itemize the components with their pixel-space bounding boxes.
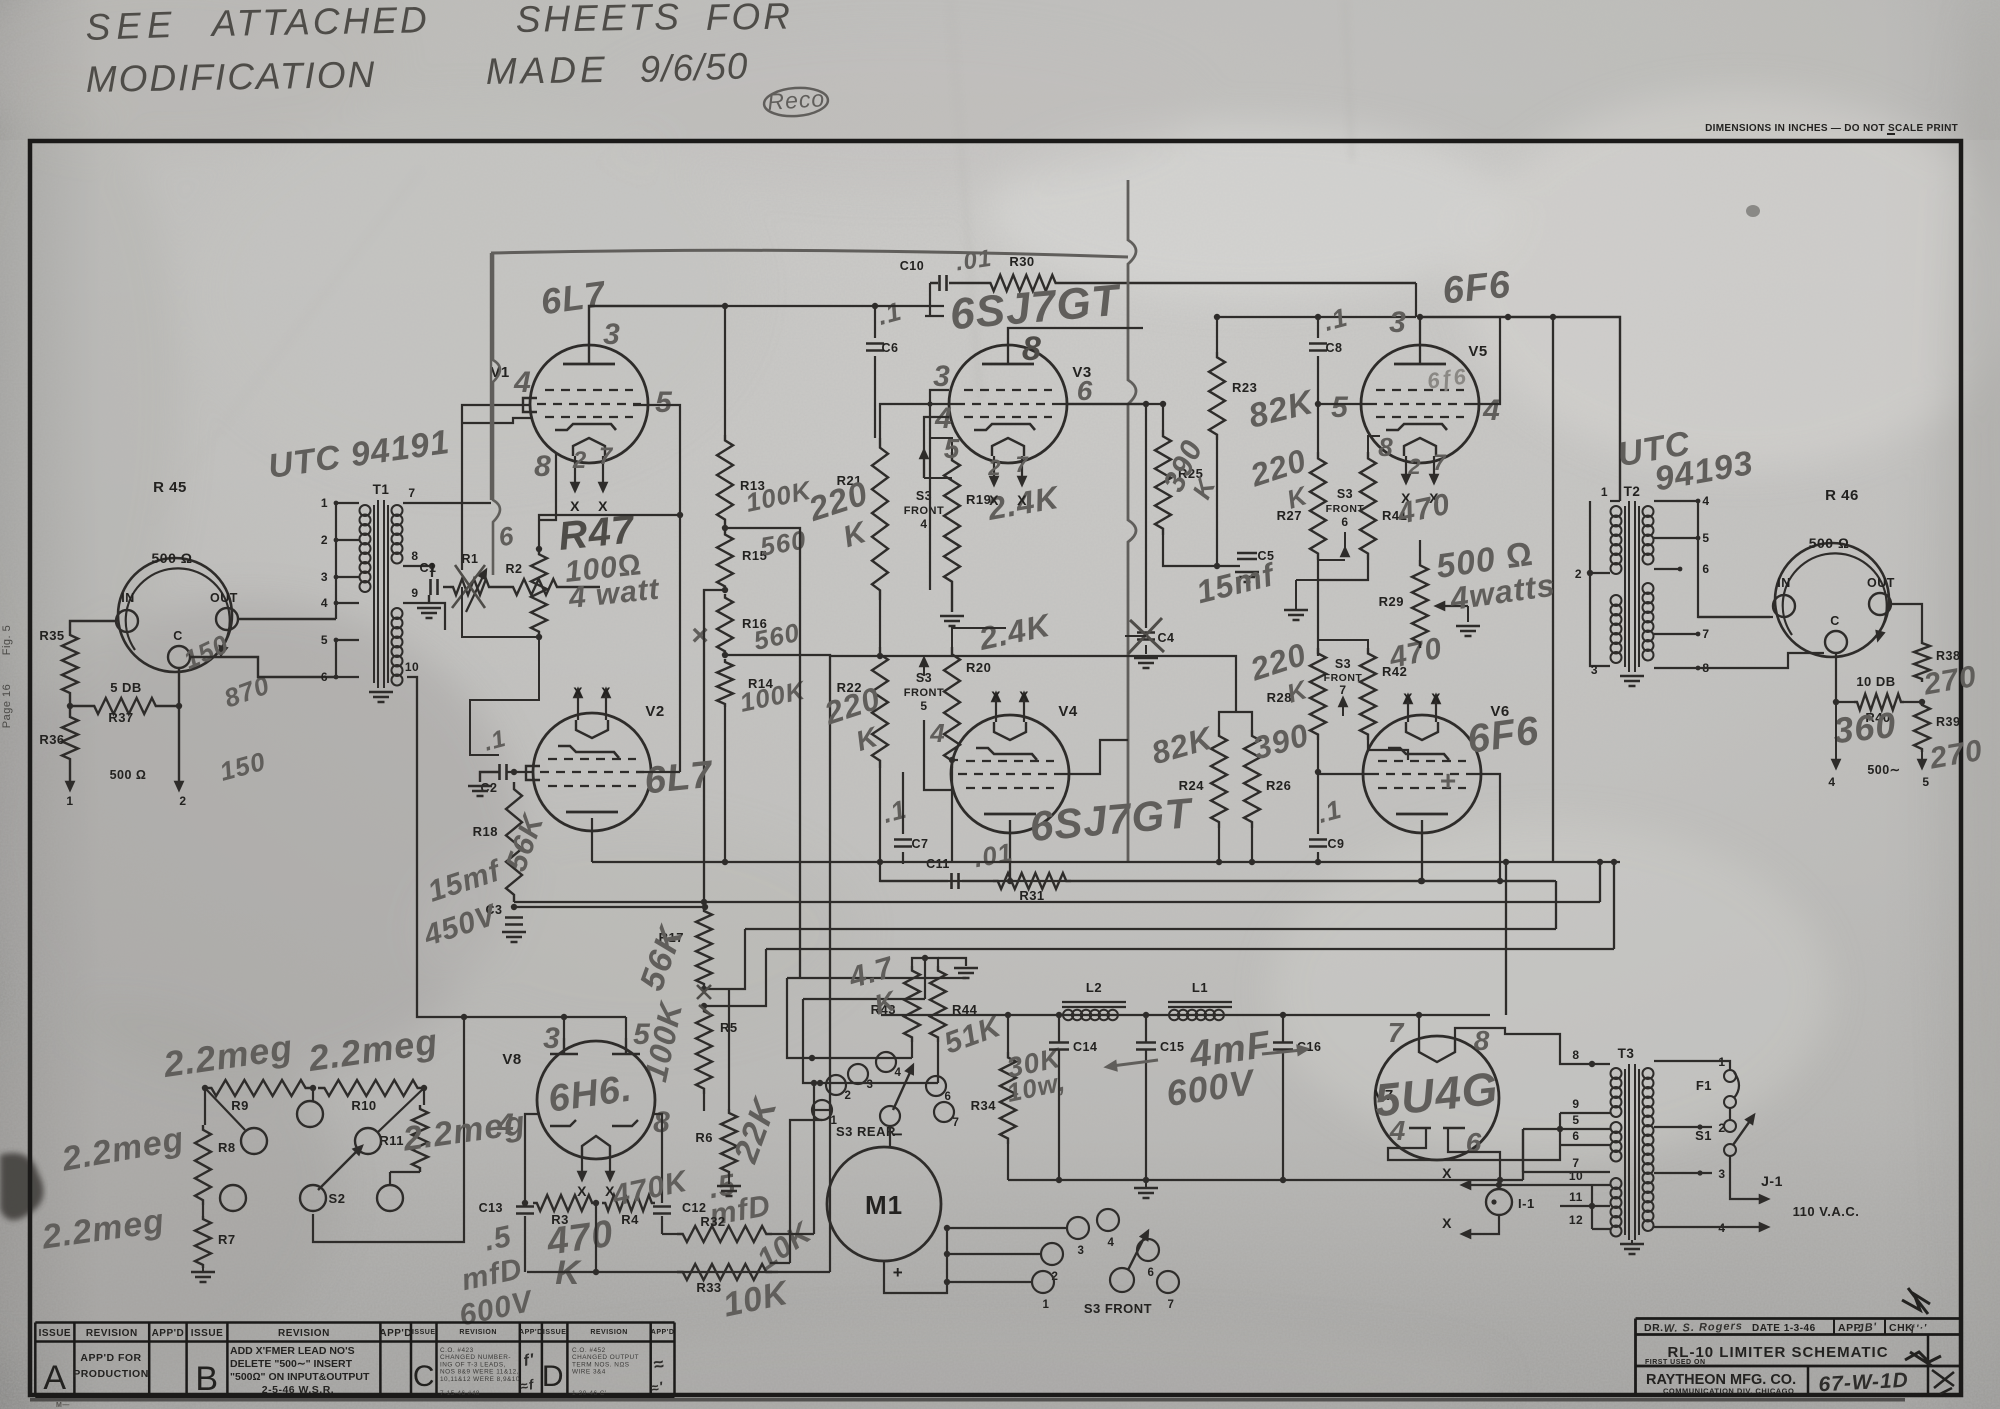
svg-text:9/6/50: 9/6/50 [639, 45, 749, 90]
svg-text:C: C [413, 1360, 435, 1393]
svg-text:3: 3 [933, 360, 951, 393]
svg-text:4: 4 [1389, 1115, 1407, 1146]
svg-text:Page 16: Page 16 [1, 684, 13, 728]
svg-text:500∼: 500∼ [1867, 763, 1900, 777]
svg-text:ISSUE: ISSUE [39, 1328, 72, 1339]
svg-text:R31: R31 [1019, 888, 1044, 903]
svg-text:6L7: 6L7 [642, 754, 715, 803]
svg-text:6: 6 [1077, 375, 1094, 406]
svg-text:SHEETS: SHEETS [515, 0, 682, 40]
svg-text:V2: V2 [645, 703, 664, 720]
svg-text:R26: R26 [1266, 778, 1291, 793]
svg-text:X: X [598, 498, 608, 514]
svg-text:R32: R32 [700, 1214, 725, 1229]
svg-text:L1: L1 [1192, 980, 1208, 995]
svg-text:V5: V5 [1468, 343, 1487, 360]
svg-text:FRONT: FRONT [1326, 503, 1365, 515]
svg-text:X: X [573, 684, 583, 700]
svg-text:REVISION: REVISION [590, 1329, 627, 1336]
svg-text:1: 1 [1043, 1299, 1050, 1311]
svg-text:M1: M1 [865, 1190, 903, 1220]
svg-text:6: 6 [1702, 562, 1709, 576]
svg-text:CHANGED OUTPUT: CHANGED OUTPUT [572, 1354, 639, 1361]
svg-text:DIMENSIONS IN INCHES — DO NOT: DIMENSIONS IN INCHES — DO NOT SCALE PRIN… [1705, 123, 1958, 134]
svg-text:500 Ω: 500 Ω [1809, 535, 1850, 551]
svg-text:ATTACHED: ATTACHED [209, 0, 430, 44]
svg-text:X: X [601, 684, 611, 700]
svg-text:C12: C12 [682, 1201, 706, 1215]
svg-text:R37: R37 [108, 710, 133, 725]
svg-text:.01: .01 [954, 245, 994, 277]
svg-text:8: 8 [1378, 432, 1393, 462]
svg-text:9: 9 [1572, 1097, 1579, 1111]
svg-text:OUT: OUT [1867, 576, 1895, 590]
svg-text:REVISION: REVISION [459, 1329, 496, 1336]
svg-text:2: 2 [321, 533, 328, 547]
svg-text:C: C [1830, 614, 1840, 628]
svg-text:R30: R30 [1009, 254, 1034, 269]
svg-text:FOR: FOR [705, 0, 793, 38]
svg-text:TERM NOS. NΩS: TERM NOS. NΩS [572, 1361, 630, 1368]
svg-text:C6: C6 [882, 341, 899, 355]
svg-text:FRONT: FRONT [904, 505, 944, 517]
svg-text:4: 4 [1108, 1237, 1115, 1249]
svg-text:R7: R7 [218, 1232, 236, 1247]
svg-text:C10: C10 [900, 259, 924, 273]
svg-text:C.O. #452: C.O. #452 [572, 1347, 606, 1354]
svg-text:6: 6 [321, 670, 328, 684]
svg-text:R35: R35 [39, 628, 64, 643]
svg-text:R18: R18 [473, 824, 498, 839]
svg-text:C1: C1 [420, 561, 437, 575]
svg-text:T3: T3 [1618, 1046, 1635, 1061]
svg-text:6: 6 [1148, 1267, 1155, 1279]
svg-text:SEE: SEE [85, 4, 178, 48]
svg-text:8: 8 [534, 450, 552, 483]
svg-text:S3: S3 [1335, 657, 1351, 671]
svg-text:3: 3 [867, 1079, 874, 1091]
svg-text:JB′: JB′ [1857, 1321, 1878, 1335]
svg-text:2: 2 [987, 455, 1001, 480]
svg-text:4: 4 [321, 596, 328, 610]
svg-text:9: 9 [411, 586, 418, 600]
svg-text:R38: R38 [1936, 649, 1960, 663]
svg-text:REVISION: REVISION [86, 1328, 138, 1339]
svg-text:WIRE 3&4: WIRE 3&4 [572, 1369, 606, 1376]
svg-text:8: 8 [1022, 330, 1042, 368]
svg-text:8: 8 [411, 549, 418, 563]
svg-text:APP'D: APP'D [379, 1328, 412, 1339]
svg-text:2: 2 [845, 1090, 852, 1102]
svg-text:×: × [691, 619, 710, 652]
svg-text:A: A [43, 1359, 66, 1397]
svg-text:10 DB: 10 DB [1856, 674, 1895, 689]
svg-text:7: 7 [599, 443, 614, 470]
svg-text:X: X [570, 498, 580, 514]
svg-text:B: B [195, 1360, 218, 1398]
svg-text:1: 1 [321, 496, 328, 510]
svg-text:5: 5 [655, 386, 673, 419]
svg-text:7: 7 [953, 1117, 960, 1129]
svg-text:5: 5 [1922, 775, 1929, 789]
svg-text:R1: R1 [462, 552, 479, 566]
svg-text:I-1: I-1 [1518, 1196, 1535, 1211]
svg-text:6: 6 [1341, 515, 1348, 529]
svg-text:3: 3 [603, 318, 621, 351]
svg-text:C13: C13 [479, 1201, 503, 1215]
svg-text:360: 360 [1831, 704, 1898, 751]
svg-text:X: X [1019, 688, 1029, 704]
svg-text:L2: L2 [1086, 980, 1102, 995]
svg-text:≈′: ≈′ [649, 1378, 665, 1396]
svg-text:2: 2 [572, 447, 587, 474]
svg-text:ISSUE: ISSUE [412, 1329, 436, 1336]
svg-text:X: X [1403, 690, 1413, 706]
svg-text:6: 6 [1466, 1127, 1483, 1158]
svg-text:7-15-46 #48: 7-15-46 #48 [440, 1390, 480, 1397]
svg-text:X: X [1442, 1165, 1452, 1181]
svg-text:3: 3 [1078, 1245, 1085, 1257]
svg-text:+: + [893, 1263, 903, 1282]
svg-text:11: 11 [1569, 1190, 1583, 1204]
svg-text:C: C [173, 629, 183, 643]
svg-text:1-30-46 C′: 1-30-46 C′ [572, 1390, 607, 1397]
svg-text:8: 8 [1572, 1048, 1579, 1062]
svg-text:X: X [1431, 690, 1441, 706]
svg-text:J-1: J-1 [1761, 1173, 1783, 1189]
svg-text:6: 6 [1572, 1129, 1579, 1143]
svg-text:8: 8 [1474, 1025, 1491, 1056]
svg-text:7: 7 [1015, 452, 1029, 477]
svg-text:DATE 1-3-46: DATE 1-3-46 [1752, 1323, 1816, 1334]
svg-text:C7: C7 [912, 837, 929, 851]
svg-text:APP'D FOR: APP'D FOR [80, 1352, 141, 1364]
svg-text:PRODUCTION: PRODUCTION [73, 1368, 149, 1380]
svg-text:CHANGED NUMBER-: CHANGED NUMBER- [440, 1354, 511, 1361]
svg-text:7: 7 [1702, 627, 1709, 641]
svg-text:R9: R9 [231, 1098, 249, 1113]
svg-text:4: 4 [1828, 775, 1835, 789]
svg-text:R4: R4 [621, 1212, 639, 1227]
svg-text:R6: R6 [695, 1130, 713, 1145]
svg-text:4: 4 [920, 517, 927, 531]
svg-text:R2: R2 [506, 562, 523, 576]
svg-text:APP'D: APP'D [651, 1329, 675, 1336]
svg-text:X: X [1442, 1215, 1452, 1231]
svg-text:7: 7 [1388, 1017, 1405, 1048]
svg-text:2-5-46 W.S.R.: 2-5-46 W.S.R. [262, 1384, 334, 1396]
svg-text:2: 2 [1407, 454, 1421, 479]
svg-text:FIRST USED ON: FIRST USED ON [1645, 1359, 1706, 1366]
svg-text:12: 12 [1569, 1213, 1583, 1227]
svg-text:R10: R10 [351, 1098, 376, 1113]
svg-text:C4: C4 [1158, 631, 1175, 645]
svg-text:ISSUE: ISSUE [191, 1328, 224, 1339]
svg-text:3: 3 [1389, 306, 1407, 339]
svg-text:3: 3 [1591, 663, 1598, 677]
svg-text:S3 FRONT: S3 FRONT [1084, 1301, 1152, 1316]
svg-text:5: 5 [321, 633, 328, 647]
svg-text:3: 3 [543, 1022, 561, 1055]
svg-text:V4: V4 [1058, 703, 1078, 720]
svg-text:S3 REAR: S3 REAR [836, 1124, 896, 1139]
svg-text:5 DB: 5 DB [110, 680, 142, 695]
svg-text:APP'D: APP'D [152, 1328, 185, 1339]
svg-text:5: 5 [1702, 531, 1709, 545]
svg-text:5: 5 [944, 433, 961, 464]
svg-text:6F6: 6F6 [1440, 264, 1512, 313]
svg-text:X: X [989, 492, 999, 508]
svg-text:S3: S3 [1337, 487, 1353, 501]
svg-text:DR.: DR. [1644, 1322, 1664, 1334]
svg-text:5: 5 [1572, 1113, 1579, 1127]
svg-text:4: 4 [895, 1067, 902, 1079]
svg-text:R20: R20 [966, 660, 991, 675]
svg-text:+: + [1439, 765, 1456, 796]
svg-text:10: 10 [405, 660, 419, 674]
svg-text:"500Ω" ON INPUT&OUTPUT: "500Ω" ON INPUT&OUTPUT [230, 1371, 370, 1383]
svg-text:MODIFICATION: MODIFICATION [85, 54, 376, 100]
svg-text:D: D [542, 1360, 564, 1393]
svg-text:R8: R8 [218, 1140, 236, 1155]
svg-text:C2: C2 [481, 781, 498, 795]
svg-text:7: 7 [1572, 1156, 1579, 1170]
svg-text:R11: R11 [379, 1133, 404, 1148]
svg-text:4: 4 [934, 402, 953, 435]
svg-text:4: 4 [513, 366, 532, 399]
svg-text:R 46: R 46 [1825, 487, 1859, 504]
svg-text:C.O. #423: C.O. #423 [440, 1347, 474, 1354]
svg-text:1: 1 [66, 794, 73, 808]
svg-text:S1: S1 [1695, 1128, 1712, 1143]
svg-text:7: 7 [408, 486, 415, 500]
svg-text:OUT: OUT [210, 591, 238, 605]
svg-text:C15: C15 [1160, 1040, 1184, 1054]
svg-text:IN: IN [1777, 576, 1791, 590]
svg-text:X: X [1017, 492, 1027, 508]
svg-text:7: 7 [1168, 1299, 1175, 1311]
svg-text:4: 4 [929, 718, 945, 748]
svg-text:X: X [991, 688, 1001, 704]
svg-text:500 Ω: 500 Ω [110, 768, 147, 782]
svg-text:4: 4 [1702, 494, 1709, 508]
svg-text:R34: R34 [971, 1098, 997, 1113]
svg-text:R39: R39 [1936, 715, 1960, 729]
svg-text:R36: R36 [39, 732, 64, 747]
svg-text:4: 4 [1482, 394, 1501, 427]
svg-text:V8: V8 [502, 1051, 521, 1068]
svg-text:ISSUE: ISSUE [543, 1329, 567, 1336]
svg-text:R24: R24 [1179, 778, 1205, 793]
svg-text:−: − [893, 1125, 903, 1144]
svg-text:67-W-1D: 67-W-1D [1818, 1369, 1909, 1397]
svg-text:Fig. 5: Fig. 5 [1, 625, 13, 656]
svg-text:REVISION: REVISION [278, 1328, 330, 1339]
svg-text:3: 3 [1718, 1167, 1725, 1181]
svg-text:1: 1 [1601, 485, 1608, 499]
svg-text:2: 2 [1575, 567, 1582, 581]
svg-text:APP'D: APP'D [519, 1329, 543, 1336]
svg-text:COMMUNICATION DIV. CHICAGO: COMMUNICATION DIV. CHICAGO [1663, 1387, 1794, 1396]
svg-text:R23: R23 [1232, 380, 1257, 395]
svg-text:ADD X'FMER LEAD NO'S: ADD X'FMER LEAD NO'S [230, 1345, 355, 1357]
svg-text:110 V.A.C.: 110 V.A.C. [1793, 1204, 1860, 1219]
svg-text:M—: M— [56, 1402, 70, 1409]
svg-text:R 45: R 45 [153, 479, 187, 496]
svg-text:T1: T1 [373, 482, 390, 497]
svg-text:500 Ω: 500 Ω [152, 550, 193, 566]
svg-text:ING OF T-3 LEADS,: ING OF T-3 LEADS, [440, 1361, 506, 1368]
svg-text:X: X [577, 1183, 587, 1199]
svg-text:DELETE "500∼" INSERT: DELETE "500∼" INSERT [230, 1358, 353, 1370]
svg-text:7: 7 [1433, 450, 1447, 475]
svg-text:10,11&12 WERE 8,9&10: 10,11&12 WERE 8,9&10 [440, 1376, 520, 1383]
svg-text:C9: C9 [1328, 837, 1345, 851]
svg-text:3: 3 [321, 570, 328, 584]
svg-text:C11: C11 [926, 857, 950, 871]
svg-text:NOS 8&9 WERE 11&12,: NOS 8&9 WERE 11&12, [440, 1369, 519, 1376]
svg-text:MADE: MADE [485, 49, 609, 92]
svg-text:5: 5 [920, 699, 927, 713]
svg-text:C8: C8 [1326, 341, 1343, 355]
svg-text:IN: IN [121, 591, 135, 605]
svg-text:S2: S2 [329, 1191, 346, 1206]
svg-text:T2: T2 [1624, 484, 1641, 499]
svg-text:4: 4 [496, 1108, 515, 1141]
svg-text:5: 5 [633, 1018, 651, 1051]
svg-text:C14: C14 [1073, 1040, 1097, 1054]
svg-text:7: 7 [1339, 683, 1346, 697]
svg-text:F1: F1 [1696, 1078, 1712, 1093]
svg-text:5: 5 [1331, 391, 1349, 424]
svg-text:ƒ′·′: ƒ′·′ [1909, 1323, 1927, 1335]
svg-text:R29: R29 [1379, 594, 1404, 609]
svg-text:2: 2 [179, 794, 186, 808]
svg-text:R33: R33 [696, 1280, 721, 1295]
svg-text:FRONT: FRONT [904, 687, 944, 699]
